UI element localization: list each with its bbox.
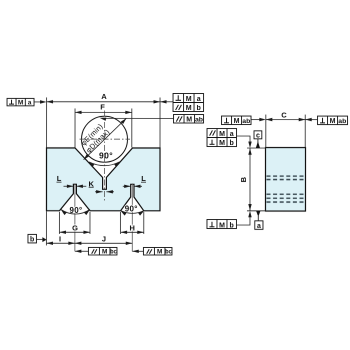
svg-text:ab: ab: [195, 116, 203, 123]
svg-text:I: I: [59, 234, 61, 243]
svg-text:M: M: [157, 249, 162, 256]
svg-text:M: M: [219, 222, 225, 229]
svg-text:ab: ab: [242, 118, 250, 125]
svg-text:90°: 90°: [125, 204, 138, 213]
diameter leader line in circle: [84, 118, 127, 160]
svg-text:b: b: [230, 140, 234, 147]
dimension G: [59, 231, 89, 233]
svg-text:90°: 90°: [99, 151, 113, 161]
svg-text:ab: ab: [338, 118, 346, 125]
svg-text:M: M: [18, 100, 23, 107]
datum c: [254, 131, 262, 148]
dimension A: [47, 101, 160, 103]
datum a: [255, 211, 263, 230]
svg-text:G: G: [72, 223, 78, 232]
frame 6 stacked par M a / perp M b (side view left): [207, 129, 252, 149]
svg-text:c: c: [256, 133, 260, 140]
hidden dashed lines group 1: [266, 176, 304, 179]
center line left groove: [74, 183, 76, 251]
frame 7 perp M b (side view bottom): [207, 211, 252, 230]
svg-text:bc: bc: [110, 249, 117, 256]
frame 3 par M ab with leader to circle: [99, 114, 203, 123]
svg-text:M: M: [219, 140, 225, 147]
svg-text:b: b: [197, 105, 201, 112]
datum b: [28, 234, 47, 243]
dimension F: [75, 111, 132, 113]
hidden dashed lines group 2: [266, 194, 304, 202]
svg-text:b: b: [230, 222, 234, 229]
pin circle: [82, 116, 128, 162]
center line right groove: [131, 183, 133, 251]
dimension K: [95, 191, 103, 193]
svg-text:M: M: [186, 96, 192, 103]
side view edge extensions: [247, 148, 266, 211]
center line horizontal (circle): [80, 138, 130, 140]
svg-text:b: b: [30, 237, 34, 244]
svg-text:H: H: [129, 223, 134, 232]
svg-text:F: F: [100, 103, 105, 112]
dimension L left: [63, 185, 73, 187]
extension lines: [46, 97, 305, 245]
svg-text:bc: bc: [165, 249, 172, 256]
svg-text:A: A: [101, 92, 107, 101]
svg-text:M: M: [234, 118, 240, 125]
svg-text:a: a: [28, 100, 32, 107]
frame 9 par M bc (bottom right): [132, 247, 172, 255]
svg-text:J: J: [102, 234, 106, 243]
frame 2 stacked perp M a / par M b (top right): [160, 93, 204, 112]
dimension I: [46, 242, 74, 244]
dimension J: [75, 242, 132, 244]
svg-text:M: M: [186, 105, 192, 112]
svg-text:a: a: [197, 96, 201, 103]
V-block body (front view): [46, 148, 160, 211]
dimension B: [249, 148, 251, 210]
svg-text:a: a: [230, 131, 234, 138]
center line vertical (main V): [103, 110, 105, 200]
svg-text:M: M: [102, 249, 107, 256]
dimension C: [266, 119, 305, 121]
frame 8 par M bc (bottom left): [75, 247, 117, 255]
frame 4 perp M ab (side view left of C): [222, 116, 266, 125]
frame 5 perp M ab (side view right of C): [305, 116, 347, 125]
dimension L right: [123, 185, 131, 187]
dimension H: [121, 231, 144, 233]
frame 1 perp M a (top left): [7, 98, 47, 106]
svg-text:M: M: [186, 117, 192, 124]
svg-text:B: B: [239, 176, 248, 182]
svg-text:M: M: [219, 131, 225, 138]
svg-text:M: M: [330, 118, 336, 125]
svg-text:a: a: [257, 223, 261, 230]
svg-text:C: C: [281, 110, 287, 119]
side view body: [265, 148, 305, 212]
